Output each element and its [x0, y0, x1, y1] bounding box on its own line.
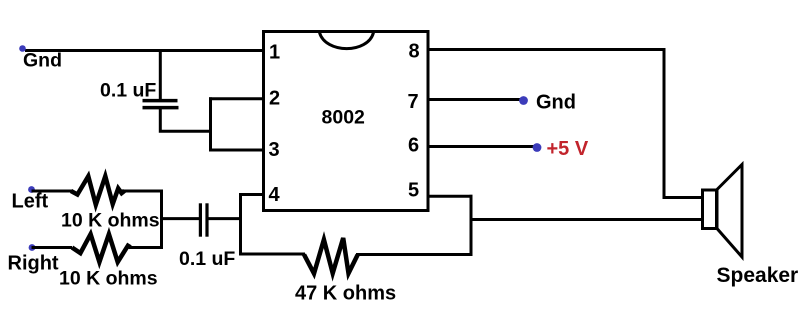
capacitor C2 right plate: [205, 203, 208, 236]
wire pin4 vertical drop: [239, 193, 242, 256]
wire loop joining pin2 and pin3: left vertical: [209, 97, 212, 151]
resistor R2 10 K ohms (Right): [72, 234, 131, 262]
wire R2 to junction: [130, 246, 164, 249]
wire Left input: [32, 190, 73, 193]
capacitor C2 left lead: [160, 217, 199, 220]
svg-text:10 K ohms: 10 K ohms: [59, 268, 158, 290]
node Right input dot: [29, 244, 36, 251]
IC pin-1 notch arc: [320, 33, 374, 49]
wire pin5 vertical drop: [470, 195, 473, 256]
wire pin6 stub: [427, 145, 535, 148]
capacitor C1 bottom plate: [143, 106, 179, 110]
wire R1 to junction: [120, 190, 163, 193]
node Gnd input dot: [19, 45, 26, 52]
wire pin1 to Gnd: [25, 49, 264, 52]
wire pin5 stub: [427, 195, 473, 198]
svg-text:8: 8: [409, 41, 420, 63]
resistor R1 10 K ohms (Left): [71, 176, 125, 205]
svg-text:Gnd: Gnd: [23, 50, 62, 72]
svg-text:0.1 uF: 0.1 uF: [179, 248, 235, 270]
node Left input dot: [28, 186, 35, 193]
node pin7 Gnd dot: [519, 96, 528, 105]
capacitor C1 top plate: [143, 99, 178, 103]
svg-text:6: 6: [408, 135, 419, 157]
wire Right input: [32, 246, 73, 249]
node pin6 +5V dot: [533, 143, 542, 152]
speaker LS1 magnet body: [703, 190, 717, 229]
svg-text:10 K ohms: 10 K ohms: [61, 210, 160, 232]
svg-text:Gnd: Gnd: [536, 92, 576, 114]
wire pin3 stub: [209, 149, 264, 152]
svg-text:5: 5: [408, 180, 419, 202]
svg-text:Left: Left: [12, 191, 49, 213]
capacitor C2 right lead: [208, 217, 242, 220]
wire output to speaker bottom terminal: [471, 218, 702, 221]
wire pin8 to speaker top terminal: [427, 50, 702, 198]
svg-text:47 K ohms: 47 K ohms: [295, 283, 396, 305]
wire C1 bottom lead: [160, 108, 210, 131]
wire pin7 stub: [427, 98, 522, 101]
svg-text:+5 V: +5 V: [547, 138, 589, 160]
svg-text:4: 4: [269, 184, 281, 206]
svg-text:8002: 8002: [322, 107, 366, 129]
wire input junction vertical: [160, 190, 163, 250]
wire feedback right segment: [356, 253, 473, 256]
wire pin4 stub: [241, 193, 265, 196]
svg-text:0.1 uF: 0.1 uF: [100, 80, 156, 102]
svg-text:7: 7: [408, 91, 419, 113]
resistor R3 47 K ohms: [304, 238, 358, 274]
svg-text:1: 1: [269, 42, 280, 64]
wire pin2 stub: [209, 97, 264, 100]
svg-text:Right: Right: [8, 253, 59, 275]
svg-text:Speaker: Speaker: [717, 264, 799, 287]
speaker LS1 cone: [717, 165, 742, 258]
op-amp IC U1 8002 body: [264, 32, 429, 211]
svg-text:2: 2: [269, 88, 280, 110]
svg-text:3: 3: [269, 139, 280, 161]
capacitor C1 0.1 uF vertical lead top: [159, 51, 162, 100]
capacitor C2 left plate: [199, 203, 202, 236]
wire feedback left segment: [239, 253, 305, 256]
